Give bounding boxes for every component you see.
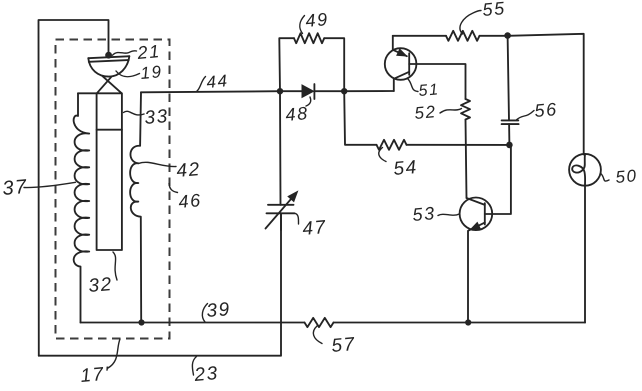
wire 39: bottom rail left section — [81, 322, 305, 324]
wire: right leg of resistor 49 — [324, 38, 344, 91]
svg-text:17': 17' — [80, 363, 111, 386]
electrode 19 (bowl body) — [88, 56, 129, 76]
label 39 leader — [202, 304, 207, 323]
label 17 leader — [108, 339, 120, 368]
wire: node down to resistor 54 — [344, 91, 376, 145]
transistor Q53 circle — [460, 198, 493, 231]
label 51 leader — [408, 79, 418, 92]
node: junction resistor 54 / capacitor 56 / Q53 base — [506, 142, 513, 149]
resistor 54 — [377, 140, 407, 150]
node: junction top rail / capacitor 56 — [504, 32, 511, 39]
capacitor 56 plates — [502, 119, 519, 121]
wire: resistor 54 to capacitor 56 node — [407, 144, 510, 146]
wire: left leg of resistor 49 — [279, 38, 294, 91]
transistor Q53 collector lead (from resistor 52) — [467, 198, 485, 205]
svg-text:48: 48 — [285, 103, 310, 125]
wire: lead from electrode 21 up and around left enclosure — [39, 20, 109, 356]
lamp 50 circle — [569, 154, 601, 186]
svg-text:42: 42 — [176, 159, 202, 182]
coil 42 (secondary winding) — [130, 92, 141, 322]
svg-text:23: 23 — [193, 363, 220, 386]
label 32 leader — [113, 252, 117, 280]
wire: resistor 52 down to transistor 53 — [466, 120, 467, 199]
wire: bottom rail right section — [334, 322, 586, 324]
label 46 leader — [169, 184, 178, 193]
wire: Q53 base right and up to node — [485, 145, 511, 214]
svg-text:50: 50 — [615, 166, 639, 187]
svg-text:54: 54 — [393, 157, 419, 180]
resistor 49 — [294, 33, 324, 43]
transistor Q53 base bar — [484, 203, 486, 224]
tube 33 (cylinder body) — [97, 93, 122, 250]
enclosure 17 (dashed housing) — [56, 40, 170, 339]
label 53 leader — [438, 214, 459, 216]
label 57 leader — [313, 326, 322, 344]
label 55 leader — [460, 11, 481, 35]
svg-text:53: 53 — [412, 203, 437, 225]
label 52 leader — [440, 109, 462, 114]
transistor Q51 collector lead (down to wire 44) — [394, 72, 409, 91]
resistor 55 — [446, 31, 480, 41]
wire: resistor 55 to right rail corner — [480, 34, 584, 155]
wire: top rail node down to capacitor 56 — [508, 36, 509, 121]
wire: Q51 base to resistor 52 — [409, 64, 465, 99]
transistor Q53 emitter lead with arrow — [468, 223, 485, 323]
label 21 leader — [113, 51, 137, 55]
svg-text:56: 56 — [534, 99, 559, 121]
node: junction coil 42 / bottom rail — [138, 319, 144, 325]
lamp 50 filament loop — [572, 154, 585, 186]
node: dot on electrode 21 — [105, 52, 112, 59]
wire: diode 48 to transistor 51 — [314, 90, 393, 92]
svg-text:57: 57 — [331, 334, 357, 357]
tube internal line (element 32 boundary) — [97, 129, 122, 131]
wire 44: horizontal conductor from coil 42 to diode 48 — [141, 91, 302, 92]
wire: left coil top connection — [78, 92, 97, 94]
svg-text:44: 44 — [206, 71, 230, 92]
coil 37 (primary winding) — [74, 93, 90, 322]
capacitor 47 adjustment arrow — [266, 194, 296, 229]
label 23 leader — [192, 357, 196, 376]
svg-text:55: 55 — [482, 0, 507, 20]
label 50 leader — [601, 174, 609, 182]
svg-text:51: 51 — [418, 81, 440, 100]
wire: node to capacitor 47 — [279, 91, 282, 205]
label 19 leader — [116, 71, 140, 77]
wire: lamp 50 down to bottom rail — [584, 186, 586, 323]
wire: capacitor 47 lower lead crossing bottom rail — [280, 213, 282, 230]
label 33 leader — [124, 111, 145, 115]
svg-text:32: 32 — [88, 274, 114, 297]
node: junction wire 44 / resistor 49 / capacitor 47 — [277, 88, 283, 94]
node: junction Q53 emitter / bottom rail — [465, 319, 471, 325]
capacitor 47 plates — [268, 204, 294, 206]
transistor Q51 emitter lead with arrow (to top rail) — [393, 36, 407, 56]
svg-text:49: 49 — [305, 9, 330, 31]
node: junction wire 44 / resistor 49 / resistor 54 — [341, 88, 347, 94]
svg-text:19: 19 — [140, 62, 164, 83]
wire: top rail from Q51 emitter to resistor 55 — [393, 35, 446, 37]
label 56 leader — [517, 111, 535, 120]
diode 48 — [302, 85, 314, 97]
spark gap (crossed leads below bowl) — [97, 76, 112, 93]
label 44 leader — [197, 77, 206, 92]
label 47 leader — [295, 213, 299, 224]
label 54 leader — [379, 148, 386, 162]
resistor 57 — [305, 318, 334, 327]
svg-text:47: 47 — [302, 217, 328, 240]
electrode 21 (bowl rim) — [88, 56, 129, 58]
svg-text:33: 33 — [144, 106, 170, 129]
svg-text:21: 21 — [136, 41, 162, 63]
transistor Q51 base bar — [408, 53, 410, 74]
label 37 leader — [24, 182, 76, 187]
wire 23: bottom conductor from enclosure to capacitor 47 — [39, 213, 281, 355]
resistor 52 — [461, 99, 470, 120]
transistor Q51 circle — [385, 48, 417, 80]
label 49 leader — [300, 16, 305, 34]
svg-text:52: 52 — [414, 102, 438, 123]
svg-text:39: 39 — [206, 299, 232, 322]
wire: capacitor 56 to node — [508, 124, 510, 145]
label 48 leader — [306, 97, 311, 106]
svg-text:37: 37 — [2, 176, 29, 200]
label 42 leader — [139, 162, 177, 166]
svg-text:46: 46 — [178, 190, 203, 212]
